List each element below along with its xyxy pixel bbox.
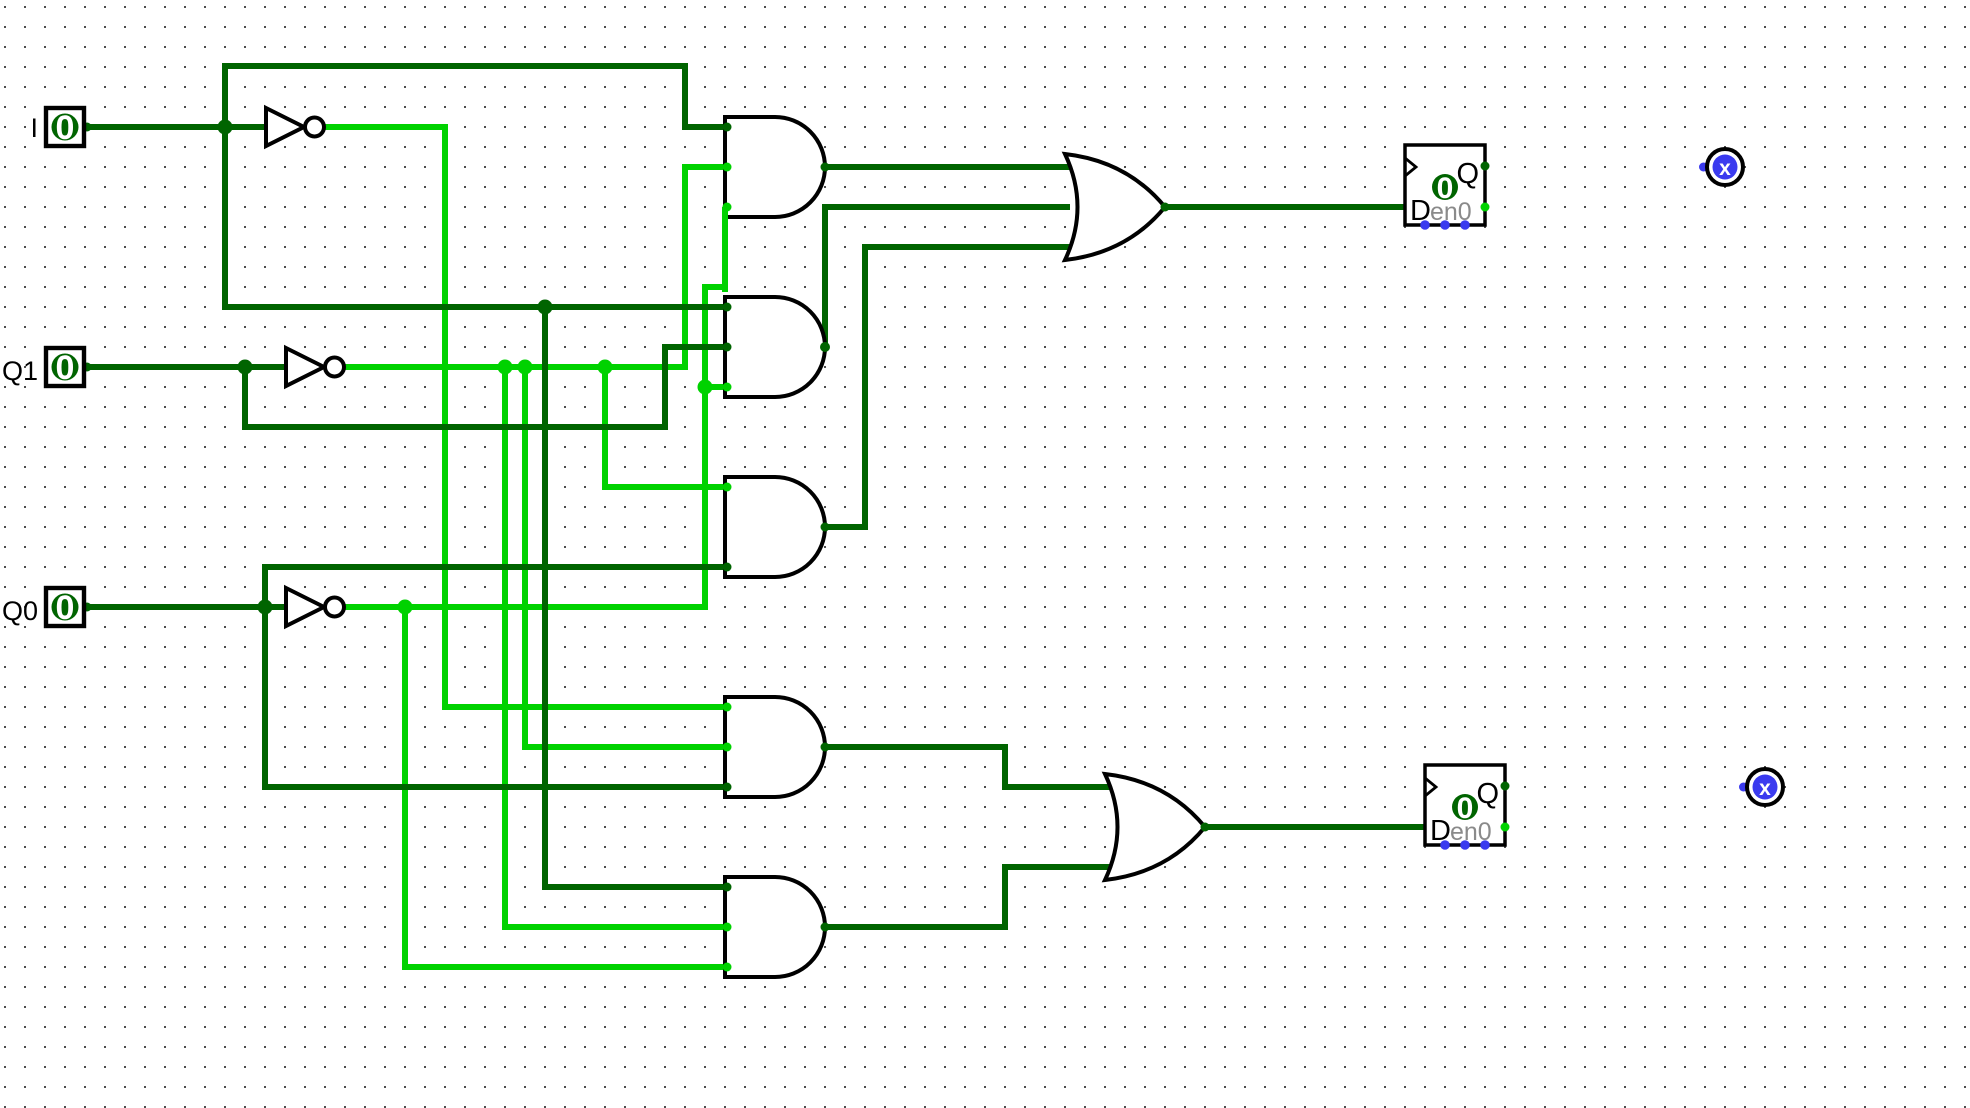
svg-text:0: 0: [1457, 792, 1474, 825]
svg-text:Q0: Q0: [2, 596, 38, 626]
svg-text:x: x: [1719, 157, 1731, 180]
svg-text:x: x: [1759, 777, 1771, 800]
svg-text:I: I: [30, 113, 38, 143]
svg-text:Q: Q: [1456, 158, 1479, 190]
svg-text:Q: Q: [1476, 778, 1499, 810]
svg-text:0: 0: [56, 109, 75, 147]
svg-text:0: 0: [56, 589, 75, 627]
svg-text:0: 0: [1437, 172, 1454, 205]
svg-text:Q1: Q1: [2, 356, 38, 386]
svg-text:0: 0: [56, 349, 75, 387]
